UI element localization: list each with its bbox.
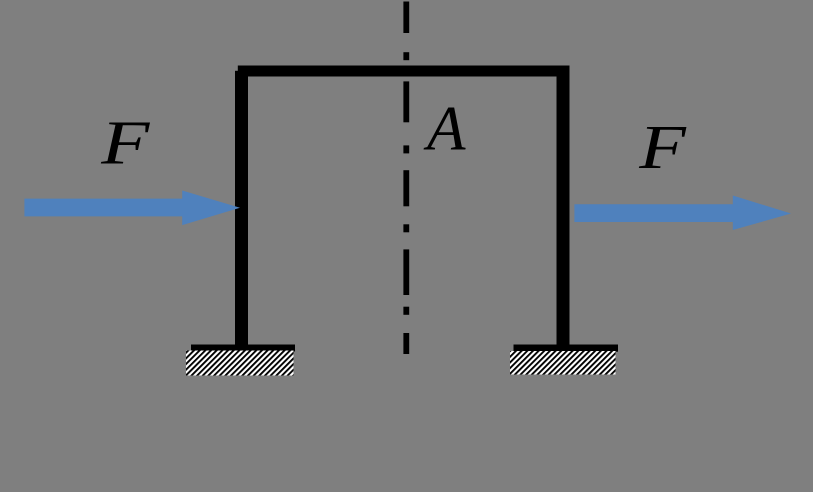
right support hatching [510,351,616,375]
left force arrow F [24,191,240,226]
left support plate [191,345,295,352]
svg-text:F: F [100,108,151,178]
centerline A-A (dash-dot axis) [403,2,409,355]
right force arrow F [574,196,791,231]
left support hatching [186,351,294,376]
frame top bar [238,66,569,77]
right support plate [514,345,619,352]
frame right leg [557,66,570,352]
frame left leg [235,71,248,352]
svg-text:F: F [638,113,687,182]
svg-text:A: A [423,94,466,164]
